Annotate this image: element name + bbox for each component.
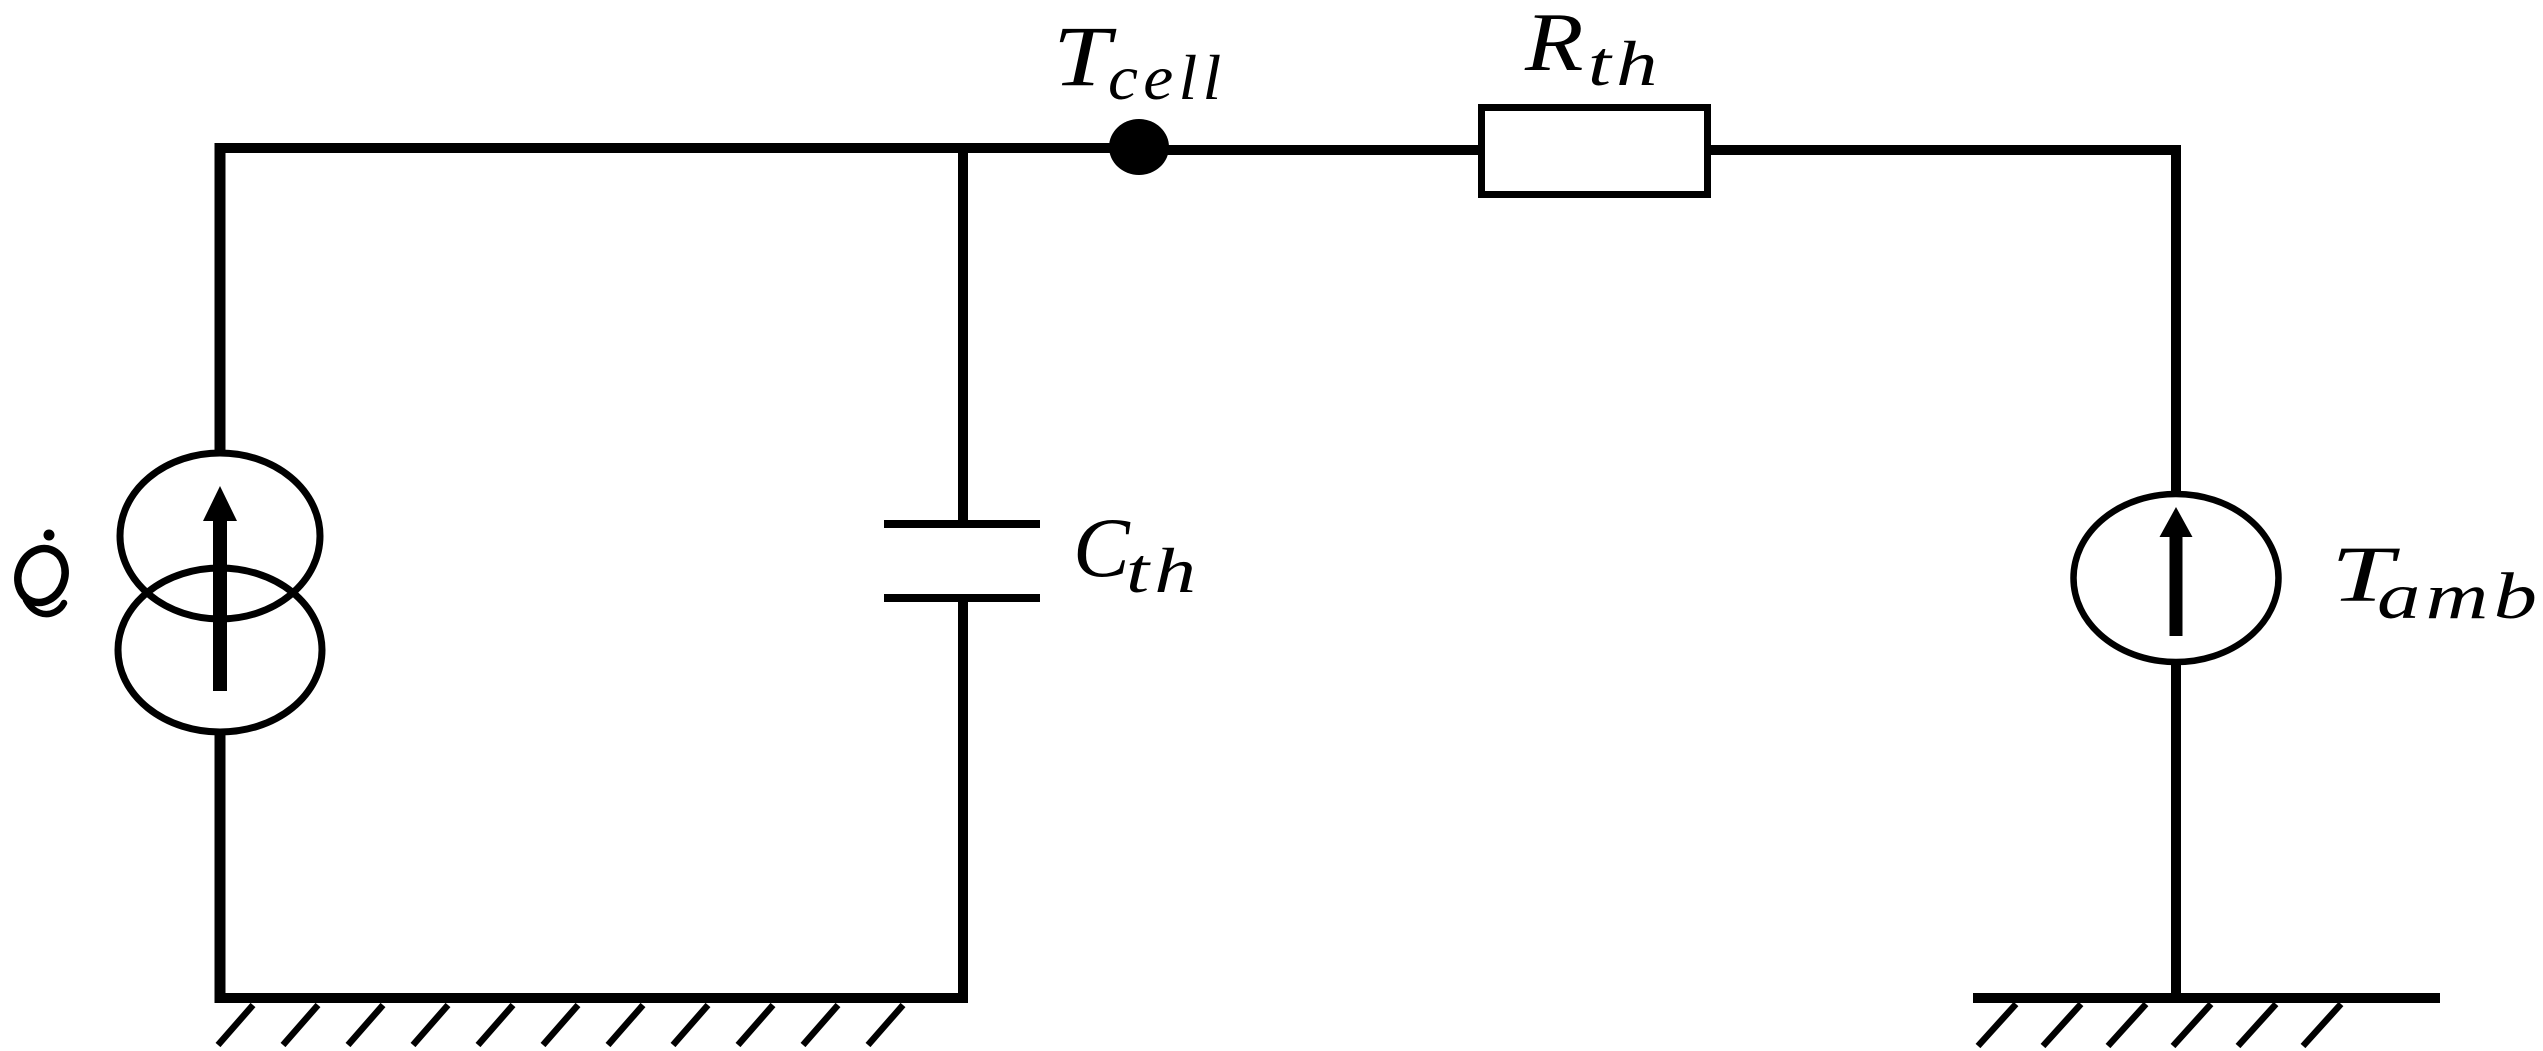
label Q-dot bbox=[10, 530, 73, 615]
wire: right vertical, source T_amb down to right ground bbox=[2171, 662, 2181, 1003]
capacitor C_th (two parallel plates) bbox=[884, 524, 1040, 598]
svg-text:cell: cell bbox=[1108, 43, 1227, 114]
wire: capacitor branch, C_th bottom plate down to ground rail bbox=[958, 598, 968, 1003]
wire: top rail, left corner to node T_cell bbox=[215, 143, 1139, 153]
ground hatching right bbox=[1978, 1004, 2341, 1046]
ground hatching left bbox=[218, 1005, 903, 1045]
wire: top rail, resistor R_th to right corner bbox=[1708, 145, 2181, 155]
label R_th bbox=[1524, 0, 1663, 99]
svg-text:th: th bbox=[1588, 28, 1663, 99]
ground rail left (bottom wire of left loop) bbox=[215, 993, 963, 1003]
wire: left vertical, heat source down to ground rail bbox=[215, 733, 226, 1003]
label T_amb bbox=[2331, 530, 2542, 632]
svg-text:R: R bbox=[1524, 0, 1584, 89]
label C_th bbox=[1073, 501, 1201, 607]
resistor R_th (box symbol) bbox=[1482, 108, 1708, 195]
wire: capacitor branch, top rail down to C_th top plate bbox=[958, 143, 968, 524]
wire: right vertical, top rail down to source T_amb bbox=[2171, 145, 2181, 492]
wire: left vertical, top rail down to heat source bbox=[215, 143, 226, 453]
svg-text:C: C bbox=[1073, 501, 1131, 595]
label T_cell bbox=[1053, 8, 1227, 114]
svg-text:amb: amb bbox=[2377, 559, 2542, 633]
source T_amb (circle with upward arrow) bbox=[2074, 494, 2279, 662]
wire: top rail, node T_cell to resistor R_th bbox=[1139, 145, 1481, 155]
heat source Q (two overlapping circles with upward arrow) bbox=[118, 453, 322, 732]
svg-text:th: th bbox=[1126, 536, 1201, 607]
ground bar right bbox=[1973, 993, 2440, 1003]
node T_cell (junction dot) bbox=[1109, 119, 1169, 175]
